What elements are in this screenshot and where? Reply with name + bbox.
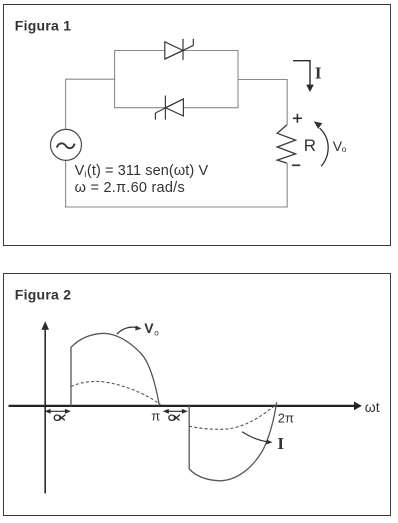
svg-text:2π: 2π xyxy=(278,410,294,425)
label vo (waveform) xyxy=(144,320,159,337)
svg-text:ωt: ωt xyxy=(365,399,380,415)
alpha interval marker (0 to alpha) xyxy=(45,409,71,414)
svg-text:(t) = 311 sen(ωt) V: (t) = 311 sen(ωt) V xyxy=(87,163,209,179)
wire: source to block input xyxy=(66,79,115,129)
wire: load to bottom rail xyxy=(286,163,288,207)
svg-text:π: π xyxy=(151,408,160,423)
wire: parallel-block left edge xyxy=(114,51,116,108)
svg-text:I: I xyxy=(315,64,322,83)
svg-text:o: o xyxy=(154,329,159,338)
x-axis xyxy=(9,402,362,411)
svg-text:Figura 1: Figura 1 xyxy=(15,18,71,34)
svg-text:R: R xyxy=(304,136,316,155)
label alpha (second) xyxy=(169,415,180,421)
y-axis xyxy=(41,321,49,493)
thyristor SCR2 (bottom) xyxy=(155,96,183,120)
wire: parallel-block bottom edge xyxy=(114,107,238,109)
svg-text:o: o xyxy=(342,144,347,154)
svg-text:V: V xyxy=(75,163,85,179)
current arrow I xyxy=(293,61,314,92)
current waveform negative half (dashed) xyxy=(189,405,275,429)
alpha interval marker (pi to pi+alpha) xyxy=(163,409,188,414)
svg-text:I: I xyxy=(277,434,284,453)
leader arrow to vo xyxy=(117,326,142,335)
label vo (load voltage) xyxy=(333,138,347,154)
wire: block output to load xyxy=(238,80,287,125)
wire: bottom rail xyxy=(65,206,288,208)
svg-text:Figura 2: Figura 2 xyxy=(15,286,71,302)
wire: source bottom lead xyxy=(65,160,67,207)
wire: parallel-block right edge xyxy=(237,51,239,108)
value label Vi(t) = 311 sen(wt) V xyxy=(75,163,209,180)
svg-text:ω = 2.π.60 rad/s: ω = 2.π.60 rad/s xyxy=(75,180,185,196)
wire: parallel-block top edge xyxy=(114,50,238,52)
AC source Vi xyxy=(51,129,82,160)
label alpha (first) xyxy=(54,415,65,421)
voltage arrow vo xyxy=(314,121,328,166)
vo waveform positive half xyxy=(71,333,159,406)
resistor R xyxy=(277,125,295,163)
label + (load top) xyxy=(293,114,302,123)
svg-text:V: V xyxy=(144,320,154,336)
current waveform positive half (dashed) xyxy=(71,381,161,404)
vo waveform negative half xyxy=(189,402,276,481)
label - (load bottom) xyxy=(292,164,300,166)
thyristor SCR1 (top) xyxy=(165,39,194,60)
leader arrow to I xyxy=(242,432,273,445)
